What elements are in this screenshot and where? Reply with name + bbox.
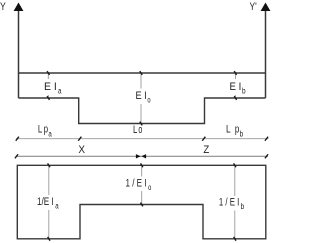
dimension EIo <box>134 71 154 125</box>
svg-text:o: o <box>148 183 152 192</box>
label 1 / E Io <box>126 177 152 192</box>
label L pb <box>226 123 244 138</box>
svg-text:o: o <box>147 96 151 105</box>
svg-text:o: o <box>138 124 142 136</box>
svg-text:b: b <box>241 202 245 211</box>
svg-text:1/E I: 1/E I <box>37 196 54 208</box>
svg-text:1 / E I: 1 / E I <box>219 197 239 209</box>
svg-text:b: b <box>240 129 244 138</box>
dimension line row X / Z <box>15 154 268 158</box>
dimension 1/EIa <box>36 163 64 240</box>
svg-text:a: a <box>48 129 52 138</box>
dimension EIb <box>228 71 248 100</box>
dimension 1/EIb <box>217 163 247 240</box>
svg-text:L: L <box>226 123 231 135</box>
label L o <box>133 124 142 136</box>
svg-text:b: b <box>242 87 246 96</box>
dimension line row Lpa / Lo / Lpb <box>16 137 269 141</box>
svg-text:1 / E I: 1 / E I <box>126 177 147 189</box>
dimension EIa <box>42 71 63 100</box>
label E Ib <box>230 81 247 96</box>
svg-text:E I: E I <box>44 81 57 93</box>
Y axis <box>14 3 24 99</box>
dimension 1/EIo <box>124 163 153 206</box>
svg-text:Z: Z <box>203 144 209 156</box>
svg-text:E I: E I <box>230 81 242 93</box>
Y' axis <box>261 3 271 99</box>
svg-text:Y: Y <box>0 1 6 13</box>
svg-text:E I: E I <box>136 90 147 102</box>
svg-text:a: a <box>58 87 62 96</box>
svg-text:X: X <box>78 144 85 156</box>
svg-text:L: L <box>133 124 137 136</box>
label L pa <box>38 123 52 138</box>
label 1 / E Ib <box>219 197 245 212</box>
label 1/E Ia <box>37 196 59 211</box>
1/EI profile outline (bottom diagram) <box>17 165 265 239</box>
svg-text:L: L <box>38 123 42 135</box>
svg-text:Y': Y' <box>250 1 257 13</box>
label E Io <box>136 90 151 104</box>
EI profile outline (top diagram) <box>19 73 266 124</box>
label E Ia <box>44 81 62 96</box>
svg-text:a: a <box>55 202 59 211</box>
